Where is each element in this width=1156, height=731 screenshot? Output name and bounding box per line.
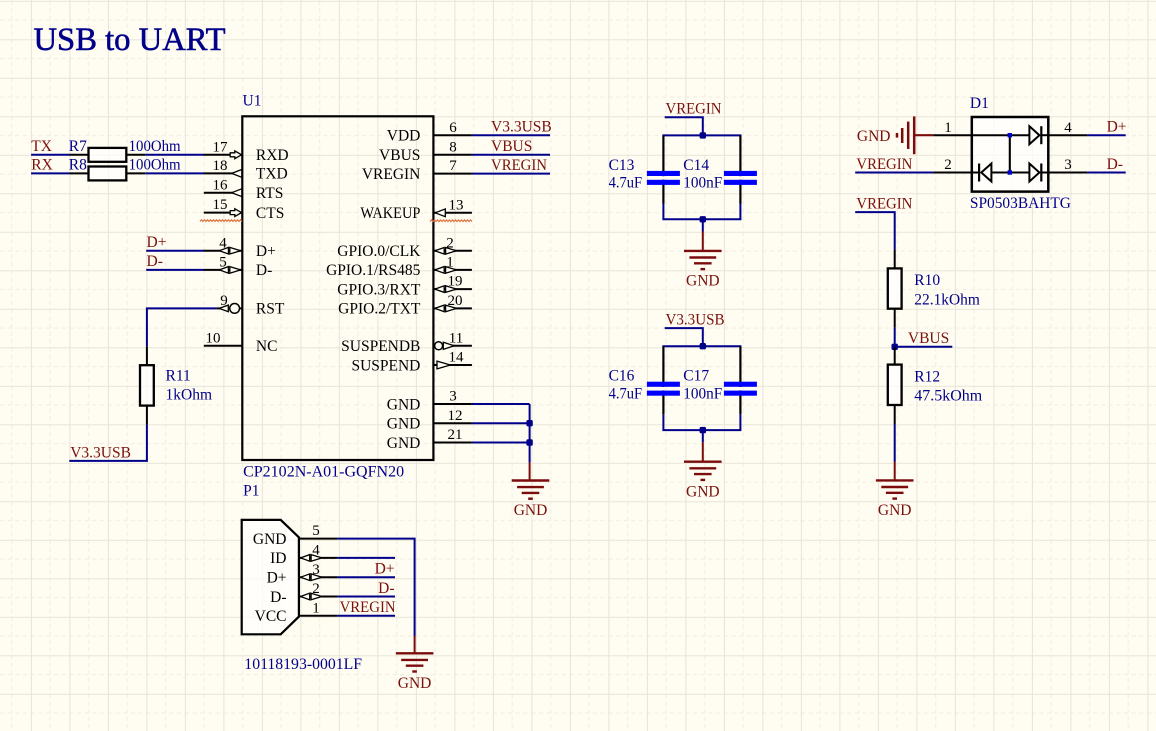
U1 pin 9 RST [216, 293, 285, 318]
svg-text:20: 20 [448, 293, 463, 309]
wire GND pin3 [472, 403, 530, 405]
ground symbol (cap block) [684, 251, 722, 290]
D1 pin 2 [933, 157, 971, 173]
wire P1 ID stub [337, 557, 395, 559]
svg-text:47.5kOhm: 47.5kOhm [914, 388, 982, 405]
svg-text:12: 12 [448, 408, 463, 424]
svg-text:C13: C13 [609, 157, 635, 174]
svg-text:R7: R7 [69, 138, 87, 155]
U1 pin 4 D+ [204, 235, 276, 260]
svg-text:ID: ID [270, 550, 286, 567]
ground stem U1 [529, 463, 531, 481]
svg-text:TX: TX [31, 138, 52, 155]
svg-text:D+: D+ [256, 243, 276, 260]
svg-text:R12: R12 [914, 368, 940, 385]
svg-text:4.7uF: 4.7uF [609, 386, 643, 403]
svg-text:VREGIN: VREGIN [362, 166, 421, 183]
U1 pin 8 VBUS [379, 139, 472, 164]
U1 pin 16 RTS [204, 177, 284, 202]
junction bottom bus [700, 216, 706, 222]
wire GND pin12 [472, 422, 530, 424]
svg-text:R11: R11 [166, 368, 191, 385]
P1 pin 1 VCC [255, 600, 338, 625]
svg-text:13: 13 [449, 197, 464, 213]
wire GND pin21 [472, 442, 530, 444]
svg-text:VREGIN: VREGIN [856, 156, 912, 173]
U1 pin 18 TXD [204, 158, 288, 183]
wire P1 D- [337, 596, 395, 598]
no-ERC squiggle under CTS pin [200, 220, 242, 222]
svg-text:V3.3USB: V3.3USB [491, 119, 552, 136]
wire VBUS stub [895, 346, 953, 348]
svg-text:14: 14 [449, 350, 465, 366]
ground stem divider [894, 462, 896, 481]
svg-text:VREGIN: VREGIN [856, 196, 912, 213]
svg-text:1: 1 [944, 120, 952, 136]
svg-text:GND: GND [686, 273, 720, 290]
resistor R8 [70, 167, 146, 181]
wire TX to R7 [31, 154, 69, 156]
diode D1c (bottom right, anode left) [1029, 164, 1048, 182]
P1 pin 3 D+ [267, 562, 338, 587]
svg-text:VBUS: VBUS [908, 330, 949, 347]
D1 pin 3 [1048, 157, 1087, 173]
svg-text:D+: D+ [1107, 119, 1127, 136]
wire VREGIN to R10 [855, 212, 895, 249]
wire R7 to U1 RXD [145, 154, 204, 156]
wire R11 to V3.3USB [69, 425, 147, 461]
U1 pin 10 NC [204, 330, 278, 355]
ground stem P1 [414, 636, 416, 653]
svg-text:V3.3USB: V3.3USB [70, 444, 131, 461]
junction top bus [700, 343, 706, 349]
svg-text:GND: GND [514, 502, 548, 519]
svg-text:D-: D- [378, 580, 394, 597]
P1 pin 4 ID [270, 543, 337, 568]
svg-text:RST: RST [256, 301, 285, 318]
wire right cap to bottom bus [739, 204, 741, 220]
wire D- to U1 [146, 269, 204, 271]
capacitor C14 symbol [724, 135, 757, 203]
U1 pin 21 GND [387, 427, 472, 452]
svg-text:D-: D- [147, 253, 163, 270]
junction D1 top [1008, 133, 1012, 137]
svg-text:TXD: TXD [256, 166, 288, 183]
svg-text:VCC: VCC [255, 608, 287, 625]
wire GND vertical bus [529, 404, 531, 463]
svg-text:4: 4 [312, 543, 320, 559]
svg-text:C16: C16 [609, 368, 635, 385]
svg-text:3: 3 [1064, 157, 1072, 173]
svg-text:17: 17 [213, 139, 229, 155]
wire P1 VCC [337, 615, 395, 617]
wire P1 D+ [337, 576, 395, 578]
svg-text:GND: GND [253, 531, 287, 548]
svg-text:4: 4 [219, 235, 227, 251]
wire internal link D1 [1009, 135, 1011, 172]
junction D1 bottom [1008, 170, 1012, 174]
svg-text:8: 8 [449, 139, 457, 155]
junction bottom bus [700, 427, 706, 433]
no-ERC squiggle under WAKEUP pin [430, 220, 472, 222]
U1 pin 2 GPIO.0/CLK [337, 235, 472, 260]
svg-text:U1: U1 [243, 93, 262, 110]
svg-text:D+: D+ [267, 570, 287, 587]
capacitor C16 symbol [647, 346, 680, 414]
P1 pin 5 GND [253, 523, 337, 548]
power ground symbol (left of D1) [857, 116, 933, 154]
svg-text:16: 16 [213, 177, 229, 193]
svg-text:V3.3USB: V3.3USB [666, 312, 725, 329]
wire VBUS net [472, 154, 550, 156]
U1 pin 1 GPIO.1/RS485 [326, 255, 472, 280]
svg-text:10118193-0001LF: 10118193-0001LF [244, 656, 362, 673]
junction VBUS [892, 344, 898, 350]
svg-text:GPIO.0/CLK: GPIO.0/CLK [337, 243, 421, 260]
svg-text:NC: NC [256, 338, 278, 355]
svg-text:C14: C14 [683, 157, 709, 174]
svg-text:1: 1 [446, 255, 454, 271]
svg-text:2: 2 [446, 235, 454, 251]
svg-text:5: 5 [312, 523, 320, 539]
svg-text:5: 5 [219, 255, 227, 271]
svg-text:100nF: 100nF [683, 386, 722, 403]
svg-text:GND: GND [387, 435, 421, 452]
ground stem [702, 219, 704, 231]
U1 pin 17 RXD [204, 139, 289, 164]
svg-text:9: 9 [220, 293, 228, 309]
svg-text:6: 6 [449, 120, 457, 136]
svg-text:100nF: 100nF [683, 175, 722, 192]
diode D1a (top, anode left) [972, 126, 1049, 144]
svg-text:VREGIN: VREGIN [666, 101, 722, 118]
resistor R11 [140, 346, 154, 424]
svg-text:100Ohm: 100Ohm [129, 138, 181, 155]
svg-text:3: 3 [449, 389, 457, 405]
svg-text:R10: R10 [914, 272, 940, 289]
IC U1 CP2102N-A01-GQFN20 body [242, 116, 433, 460]
svg-text:19: 19 [448, 274, 463, 290]
svg-text:GND: GND [857, 128, 891, 145]
U1 pin 15 CTS [204, 197, 285, 222]
wire D+ to U1 [146, 250, 204, 252]
wire R10 to VBUS node [894, 328, 896, 347]
svg-text:11: 11 [449, 330, 463, 346]
wire R12 to ground [894, 424, 896, 462]
svg-text:4: 4 [1064, 120, 1072, 136]
svg-text:GND: GND [387, 416, 421, 433]
resistor R7 [70, 148, 146, 162]
svg-text:2: 2 [312, 581, 320, 597]
svg-text:SP0503BAHTG: SP0503BAHTG [970, 195, 1071, 212]
svg-text:D-: D- [256, 262, 272, 279]
svg-text:4.7uF: 4.7uF [609, 175, 643, 192]
wire left cap to bottom bus [662, 414, 664, 430]
svg-text:18: 18 [213, 158, 228, 174]
wire D+ (right) [1087, 134, 1125, 136]
U1 pin 13 WAKEUP [360, 197, 472, 222]
capacitor C17 symbol [724, 346, 757, 414]
ground symbol P1 GND [396, 653, 434, 692]
svg-text:GPIO.3/RXT: GPIO.3/RXT [337, 281, 421, 298]
U1 pin 20 GPIO.2/TXT [338, 293, 472, 318]
svg-text:D-: D- [1107, 156, 1123, 173]
wire right cap to bottom bus [739, 414, 741, 430]
resistor R12 [888, 347, 902, 424]
wire VREGIN feed [665, 117, 703, 135]
ground stem [702, 430, 704, 442]
svg-text:D+: D+ [375, 561, 395, 578]
wire V3.3USB feed [665, 328, 703, 346]
svg-text:7: 7 [449, 158, 457, 174]
svg-text:GPIO.2/TXT: GPIO.2/TXT [338, 301, 421, 318]
ground symbol (cap block) [684, 462, 722, 501]
junction pin21 GND [526, 439, 532, 445]
D1 pin 4 [1048, 120, 1087, 136]
U1 pin 6 VDD [387, 120, 472, 145]
svg-text:VDD: VDD [387, 128, 421, 145]
svg-text:15: 15 [213, 197, 228, 213]
wire RX to R8 [31, 172, 69, 174]
svg-text:GPIO.1/RS485: GPIO.1/RS485 [326, 262, 421, 279]
P1 pin 2 D- [270, 581, 337, 606]
svg-text:21: 21 [448, 427, 463, 443]
svg-text:VBUS: VBUS [491, 138, 532, 155]
U1 pin 11 SUSPENDB [341, 330, 472, 355]
svg-text:P1: P1 [243, 482, 259, 499]
svg-text:CP2102N-A01-GQFN20: CP2102N-A01-GQFN20 [243, 464, 404, 481]
svg-text:C17: C17 [683, 368, 709, 385]
svg-text:R8: R8 [69, 157, 87, 174]
wire R8 to U1 TXD [145, 172, 204, 174]
svg-text:10: 10 [206, 330, 221, 346]
wire bottom bus [662, 218, 741, 220]
svg-text:1kOhm: 1kOhm [166, 386, 213, 403]
svg-text:USB to UART: USB to UART [34, 22, 226, 58]
wire RST to R11 [147, 308, 216, 346]
svg-text:VREGIN: VREGIN [340, 599, 396, 616]
svg-text:CTS: CTS [256, 205, 284, 222]
svg-text:SUSPEND: SUSPEND [351, 357, 420, 374]
svg-text:D1: D1 [970, 95, 989, 112]
connector P1 body [242, 520, 299, 634]
U1 pin 19 GPIO.3/RXT [337, 274, 472, 299]
ground symbol divider GND [876, 480, 914, 519]
wire D- (right) [1087, 172, 1125, 174]
svg-text:SUSPENDB: SUSPENDB [341, 338, 420, 355]
U1 pin 14 SUSPEND [351, 350, 471, 375]
diode D1b (bottom left, cathode left) [972, 164, 1029, 182]
junction pin12 GND [526, 420, 532, 426]
svg-text:2: 2 [944, 157, 952, 173]
U1 pin 12 GND [387, 408, 472, 433]
wire VREGIN net [472, 173, 550, 175]
U1 pin 5 D- [204, 255, 272, 280]
svg-text:WAKEUP: WAKEUP [360, 205, 420, 222]
capacitor C13 symbol [647, 135, 680, 203]
svg-text:VBUS: VBUS [379, 147, 420, 164]
wire VDD to V3.3USB [472, 134, 550, 136]
svg-text:1: 1 [312, 600, 320, 616]
diode array D1 body [972, 117, 1049, 192]
wire bottom bus [662, 429, 741, 431]
junction top bus [700, 132, 706, 138]
D1 pin 1 [933, 120, 971, 136]
svg-text:GND: GND [686, 483, 720, 500]
svg-text:22.1kOhm: 22.1kOhm [914, 292, 980, 309]
svg-text:GND: GND [387, 396, 421, 413]
svg-text:GND: GND [398, 675, 432, 692]
svg-text:GND: GND [878, 502, 912, 519]
svg-text:3: 3 [312, 562, 320, 578]
svg-text:RTS: RTS [256, 185, 284, 202]
wire VREGIN to D1 pin2 [855, 172, 933, 174]
wire left cap to bottom bus [662, 204, 664, 220]
resistor R10 [888, 249, 902, 327]
U1 pin 3 GND [387, 389, 472, 414]
wire P1 GND [337, 539, 414, 636]
svg-text:D-: D- [270, 589, 286, 606]
ground symbol U1 GND [512, 481, 550, 520]
U1 pin 7 VREGIN [362, 158, 472, 183]
svg-text:D+: D+ [147, 234, 167, 251]
svg-text:100Ohm: 100Ohm [129, 157, 181, 174]
svg-text:RX: RX [31, 157, 53, 174]
wire top bus [662, 345, 741, 347]
wire top bus [662, 134, 741, 136]
svg-text:RXD: RXD [256, 147, 289, 164]
svg-text:VREGIN: VREGIN [491, 157, 547, 174]
